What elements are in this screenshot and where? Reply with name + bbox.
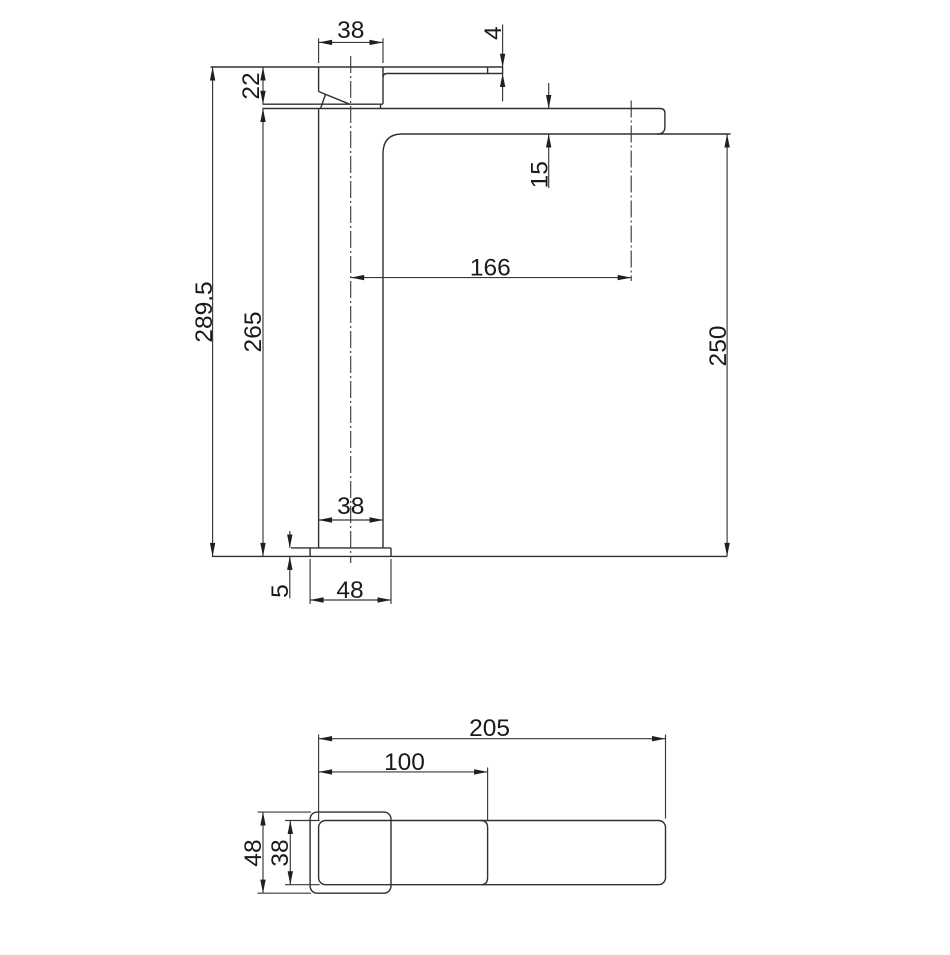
- svg-text:205: 205: [469, 715, 510, 742]
- svg-text:22: 22: [238, 72, 265, 99]
- svg-text:265: 265: [240, 312, 267, 353]
- svg-text:289.5: 289.5: [191, 281, 218, 342]
- svg-text:4: 4: [480, 26, 507, 40]
- svg-text:5: 5: [267, 584, 294, 598]
- svg-text:48: 48: [240, 839, 267, 866]
- svg-text:250: 250: [705, 326, 732, 367]
- svg-text:166: 166: [470, 255, 511, 282]
- svg-text:15: 15: [527, 161, 554, 188]
- svg-text:38: 38: [337, 17, 364, 44]
- svg-text:38: 38: [267, 839, 294, 866]
- svg-text:48: 48: [336, 577, 363, 604]
- svg-text:100: 100: [384, 749, 425, 776]
- svg-text:38: 38: [337, 493, 364, 520]
